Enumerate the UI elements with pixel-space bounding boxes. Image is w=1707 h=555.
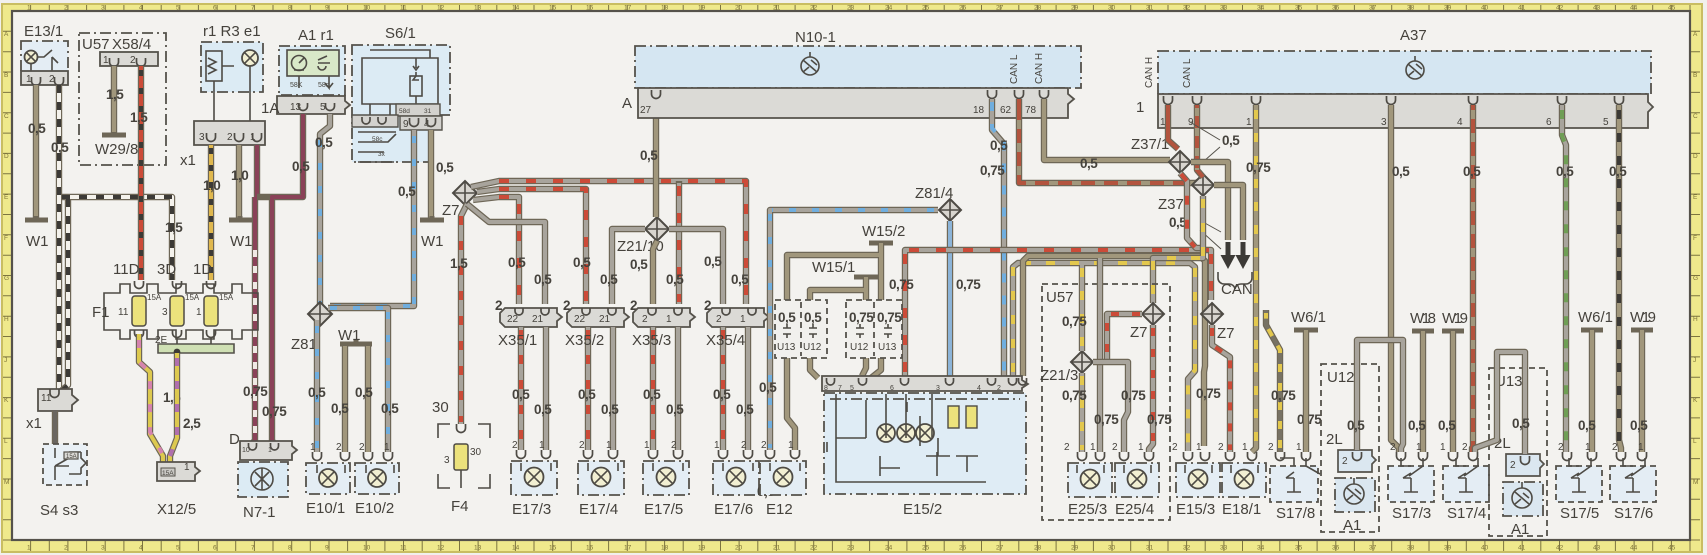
svg-text:36: 36 bbox=[1332, 5, 1340, 12]
svg-text:X35/3: X35/3 bbox=[632, 332, 671, 349]
control unit N7-1 bbox=[229, 431, 297, 521]
connector X35/4 bbox=[704, 298, 769, 327]
svg-text:13: 13 bbox=[474, 545, 482, 552]
wire to E12 pin1 brown from U-box bbox=[787, 360, 795, 450]
ground W6/1 (left) bbox=[1291, 309, 1326, 330]
wire X35/3 to E17/5 striped bbox=[650, 327, 656, 450]
svg-text:27: 27 bbox=[640, 105, 652, 116]
connector sleeve Z7 (right) bbox=[1201, 303, 1235, 342]
svg-text:2: 2 bbox=[761, 440, 767, 451]
svg-text:2: 2 bbox=[359, 442, 365, 453]
wire Z7-1 left arm to Z21/3 tee bbox=[1107, 314, 1142, 362]
wire A1r1 pin5 gray/blue 0,5 to Z81 bbox=[320, 114, 330, 314]
svg-text:A1: A1 bbox=[1511, 521, 1529, 538]
svg-text:39: 39 bbox=[1444, 5, 1452, 12]
svg-text:x1: x1 bbox=[180, 152, 196, 169]
wire A37 pin1 yellow/brown 0,75 to E18/1 pin1 bbox=[1252, 105, 1256, 452]
wire W19 to S17/4 pin1 bbox=[1450, 331, 1456, 452]
svg-text:2: 2 bbox=[1172, 442, 1178, 453]
svg-text:18: 18 bbox=[661, 5, 669, 12]
connector sleeve Z7 bbox=[442, 181, 477, 219]
svg-text:2: 2 bbox=[997, 385, 1001, 392]
wire x1 pin2 brown 1,0 to W1 bbox=[236, 145, 242, 218]
svg-text:Z21/3: Z21/3 bbox=[1040, 367, 1078, 384]
wire x1 pin1 maroon/white to N7-1 pin1 bbox=[252, 145, 257, 444]
svg-text:18: 18 bbox=[973, 105, 985, 116]
svg-text:E10/1: E10/1 bbox=[306, 500, 345, 517]
connector sleeve Z37/1 bbox=[1131, 136, 1191, 173]
svg-text:14: 14 bbox=[512, 545, 520, 552]
svg-text:Z37: Z37 bbox=[1158, 196, 1184, 213]
svg-text:19: 19 bbox=[698, 5, 706, 12]
svg-text:3: 3 bbox=[101, 5, 105, 12]
wire A1-U12 n-shape to S17/3 pin2 bbox=[1357, 340, 1403, 452]
svg-text:3: 3 bbox=[936, 385, 940, 392]
svg-text:29: 29 bbox=[1071, 5, 1079, 12]
ground W1 (E10 lamps) bbox=[340, 340, 372, 344]
wire Z21/3 right arm to E25/4 pin2 bbox=[1093, 362, 1128, 452]
ground W19 (left) bbox=[1442, 310, 1468, 331]
svg-text:27: 27 bbox=[996, 5, 1004, 12]
svg-text:W1: W1 bbox=[421, 233, 444, 250]
svg-text:13: 13 bbox=[474, 5, 482, 12]
svg-text:5: 5 bbox=[1603, 117, 1609, 128]
wire bundle H3 striped from Z7 to X35/1 bbox=[473, 197, 519, 304]
svg-text:U12: U12 bbox=[1327, 369, 1355, 386]
svg-text:0,5: 0,5 bbox=[573, 255, 591, 270]
svg-text:0,5: 0,5 bbox=[534, 402, 552, 417]
svg-text:2: 2 bbox=[336, 442, 342, 453]
svg-text:0,5: 0,5 bbox=[331, 401, 349, 416]
svg-text:30: 30 bbox=[1108, 5, 1116, 12]
svg-text:E: E bbox=[1693, 194, 1698, 201]
lamp E25/3 bbox=[1064, 442, 1112, 518]
switch-lamp unit E13/1 bbox=[21, 23, 68, 85]
svg-text:1: 1 bbox=[27, 545, 31, 552]
svg-text:0,5: 0,5 bbox=[601, 402, 619, 417]
svg-text:33: 33 bbox=[1220, 5, 1228, 12]
svg-text:42: 42 bbox=[1556, 545, 1564, 552]
svg-text:1: 1 bbox=[310, 442, 316, 453]
svg-text:21: 21 bbox=[532, 314, 544, 325]
lamp E17/5 bbox=[643, 440, 689, 518]
svg-text:D: D bbox=[1693, 153, 1698, 160]
svg-text:35: 35 bbox=[1295, 5, 1303, 12]
ground W19 (right) bbox=[1630, 309, 1656, 330]
svg-text:S17/4: S17/4 bbox=[1447, 505, 1486, 522]
svg-text:23: 23 bbox=[847, 5, 855, 12]
wire X58/4 pin1 brown 1,5 to W29/8 bbox=[111, 66, 117, 133]
svg-text:0,75: 0,75 bbox=[1246, 160, 1271, 175]
wire gray G3 from W2 to E25/3 pin1 bbox=[1097, 258, 1103, 452]
svg-text:X58/4: X58/4 bbox=[112, 36, 151, 53]
svg-text:F: F bbox=[4, 235, 8, 242]
svg-text:K: K bbox=[1693, 397, 1698, 404]
svg-text:E17/4: E17/4 bbox=[579, 501, 618, 518]
svg-text:CAN L: CAN L bbox=[1009, 54, 1020, 84]
svg-text:13: 13 bbox=[290, 102, 302, 113]
svg-text:2: 2 bbox=[1064, 442, 1070, 453]
svg-text:38: 38 bbox=[1407, 545, 1415, 552]
svg-text:W15/2: W15/2 bbox=[862, 223, 905, 240]
wire gray G1 from Z7 to X35/1 pin21 bbox=[467, 204, 545, 304]
svg-text:r1 R3 e1: r1 R3 e1 bbox=[203, 23, 261, 40]
svg-text:26: 26 bbox=[959, 5, 967, 12]
svg-text:0,5: 0,5 bbox=[1578, 418, 1596, 433]
connector strip N10-1 A bbox=[622, 53, 1074, 118]
svg-text:38: 38 bbox=[1407, 5, 1415, 12]
svg-text:2: 2 bbox=[1342, 456, 1348, 467]
svg-text:x1: x1 bbox=[26, 415, 42, 432]
svg-text:12: 12 bbox=[437, 545, 445, 552]
svg-text:E13/1: E13/1 bbox=[24, 23, 63, 40]
svg-text:36: 36 bbox=[1332, 545, 1340, 552]
wire bundle H2 striped from Z7 to X35/2 bbox=[477, 189, 586, 304]
svg-text:0,75: 0,75 bbox=[956, 277, 981, 292]
svg-text:44: 44 bbox=[1630, 545, 1638, 552]
svg-text:23: 23 bbox=[847, 545, 855, 552]
svg-text:1,0: 1,0 bbox=[231, 168, 248, 183]
ground W1 (x1 pin2) bbox=[229, 216, 252, 220]
svg-text:2: 2 bbox=[1462, 442, 1468, 453]
svg-text:W6/1: W6/1 bbox=[1578, 309, 1613, 326]
svg-text:CAN: CAN bbox=[1221, 281, 1253, 298]
lamp E12 bbox=[760, 440, 806, 518]
svg-text:6: 6 bbox=[213, 5, 217, 12]
svg-text:7: 7 bbox=[251, 5, 255, 12]
svg-text:31: 31 bbox=[424, 108, 432, 115]
svg-text:S17/8: S17/8 bbox=[1276, 505, 1315, 522]
svg-text:0,5: 0,5 bbox=[630, 257, 648, 272]
wire X58/4 pin2 red/black 1,5 down to F1 11D bbox=[138, 66, 144, 280]
svg-text:W19: W19 bbox=[1630, 309, 1656, 326]
svg-text:0,5: 0,5 bbox=[778, 310, 796, 325]
svg-text:1: 1 bbox=[539, 440, 545, 451]
svg-text:S17/6: S17/6 bbox=[1614, 505, 1653, 522]
svg-text:W1: W1 bbox=[26, 233, 49, 250]
svg-text:37: 37 bbox=[1369, 5, 1377, 12]
svg-text:0,75: 0,75 bbox=[980, 163, 1005, 178]
svg-text:A37: A37 bbox=[1400, 27, 1427, 44]
lamp E10/1 bbox=[306, 442, 350, 517]
svg-text:0,75: 0,75 bbox=[849, 310, 874, 325]
svg-text:21: 21 bbox=[773, 5, 781, 12]
control unit N10-1 block bbox=[635, 29, 1081, 88]
wire bundle H1 striped from Z7 to X35/4 bbox=[471, 181, 746, 304]
svg-text:25: 25 bbox=[922, 5, 930, 12]
svg-text:0,75: 0,75 bbox=[1271, 388, 1296, 403]
wire Z37 striped yellow branch to Z7-1 bbox=[1153, 196, 1203, 303]
svg-text:G: G bbox=[1693, 275, 1698, 282]
svg-text:U12: U12 bbox=[850, 342, 869, 353]
svg-text:U57: U57 bbox=[1046, 289, 1074, 306]
svg-text:15A: 15A bbox=[219, 293, 234, 302]
connector X35/2 bbox=[563, 298, 629, 327]
svg-text:41: 41 bbox=[1518, 545, 1526, 552]
svg-text:E15/2: E15/2 bbox=[903, 501, 942, 518]
svg-text:0,5: 0,5 bbox=[1408, 418, 1426, 433]
svg-text:J: J bbox=[1693, 357, 1696, 364]
svg-text:17: 17 bbox=[624, 5, 632, 12]
wire to E12 pin2 blue/gray from Z81/4 horizontal bbox=[770, 210, 938, 450]
svg-text:16: 16 bbox=[586, 545, 594, 552]
resistor-lamp unit r1 R3 e1 bbox=[201, 23, 263, 121]
svg-text:Z37/1: Z37/1 bbox=[1131, 136, 1169, 153]
wire Z81/4 down blue 0,75 to E15/2 pin3 bbox=[947, 221, 953, 376]
svg-text:4: 4 bbox=[139, 5, 143, 12]
svg-text:F: F bbox=[1693, 235, 1697, 242]
svg-text:0,5: 0,5 bbox=[1347, 418, 1365, 433]
svg-text:1: 1 bbox=[1196, 442, 1202, 453]
svg-text:2: 2 bbox=[671, 440, 677, 451]
svg-text:30: 30 bbox=[470, 447, 482, 458]
svg-text:40: 40 bbox=[1481, 5, 1489, 12]
svg-text:E17/6: E17/6 bbox=[714, 501, 753, 518]
svg-text:8: 8 bbox=[288, 5, 292, 12]
wire S6/1 brown 0,5 to W1 bbox=[428, 130, 434, 218]
connector x1 pin 11 bbox=[26, 389, 78, 432]
svg-text:9: 9 bbox=[325, 545, 329, 552]
svg-text:5: 5 bbox=[176, 5, 180, 12]
wire x1 pin3 yellow/black 1,0 to F1 1D bbox=[208, 145, 214, 280]
connector X35/3 bbox=[630, 298, 695, 327]
svg-text:1: 1 bbox=[666, 314, 672, 325]
svg-text:0,5: 0,5 bbox=[1438, 418, 1456, 433]
svg-text:L: L bbox=[1693, 438, 1697, 445]
svg-text:2: 2 bbox=[579, 440, 585, 451]
svg-text:0,5: 0,5 bbox=[1222, 133, 1240, 148]
wire E13/1 pin1 to ground W1 (brown 0,5) bbox=[33, 85, 39, 218]
svg-text:0,5: 0,5 bbox=[315, 135, 333, 150]
wire W15/2 brown to E15/2 and U-box branch bbox=[787, 243, 881, 378]
svg-text:D: D bbox=[229, 431, 240, 448]
svg-text:10: 10 bbox=[363, 5, 371, 12]
svg-text:24: 24 bbox=[885, 5, 893, 12]
svg-text:L: L bbox=[4, 438, 8, 445]
svg-text:1A: 1A bbox=[261, 100, 279, 117]
wire Z7 down 1,5 red/gray to F4 bbox=[461, 204, 467, 424]
svg-text:62: 62 bbox=[1000, 105, 1012, 116]
svg-text:0,75: 0,75 bbox=[1147, 412, 1172, 427]
svg-text:39: 39 bbox=[1444, 545, 1452, 552]
svg-text:A1: A1 bbox=[1343, 517, 1361, 534]
svg-text:E17/5: E17/5 bbox=[644, 501, 683, 518]
svg-text:3: 3 bbox=[101, 545, 105, 552]
svg-text:0,5: 0,5 bbox=[600, 272, 618, 287]
control unit A1 (U13) bbox=[1489, 368, 1547, 538]
ground W15/1 bbox=[812, 259, 878, 277]
relay box U57 bbox=[1042, 284, 1170, 520]
svg-text:25: 25 bbox=[922, 545, 930, 552]
svg-text:H: H bbox=[1693, 316, 1698, 323]
svg-text:E12: E12 bbox=[766, 501, 793, 518]
svg-text:F1: F1 bbox=[92, 304, 110, 321]
svg-text:S17/3: S17/3 bbox=[1392, 505, 1431, 522]
connector strip 1A bbox=[261, 96, 350, 117]
svg-text:1: 1 bbox=[1136, 99, 1144, 116]
lamp E17/4 bbox=[578, 440, 624, 518]
control unit A1 (U12) bbox=[1321, 364, 1379, 534]
svg-text:0,5: 0,5 bbox=[640, 148, 658, 163]
svg-text:2: 2 bbox=[64, 545, 68, 552]
switch S17/3 bbox=[1388, 442, 1434, 522]
svg-text:24: 24 bbox=[885, 545, 893, 552]
svg-text:0,5: 0,5 bbox=[1463, 164, 1481, 179]
svg-text:6: 6 bbox=[1546, 117, 1552, 128]
wire A37 pin4 red/brown 0,5 to S17/4 pin2 bbox=[1472, 105, 1473, 452]
svg-text:3D: 3D bbox=[157, 261, 176, 278]
svg-text:D: D bbox=[4, 153, 9, 160]
svg-text:32: 32 bbox=[1183, 545, 1191, 552]
wire N10-1 pin27 brown through Z21/10 to X35/3 bbox=[653, 118, 657, 304]
svg-text:W6/1: W6/1 bbox=[1291, 309, 1326, 326]
wire A1-U13 n-shape to S17/4 pin2 bbox=[1475, 352, 1525, 454]
svg-text:17: 17 bbox=[624, 545, 632, 552]
svg-text:0,5: 0,5 bbox=[731, 272, 749, 287]
wire Z21/10 right arm to X35/4 pin1 bbox=[669, 229, 723, 304]
svg-text:0,5: 0,5 bbox=[666, 272, 684, 287]
svg-text:1: 1 bbox=[1246, 117, 1252, 128]
wire A37 pin6 green/gray 0,5 to S17/5 pin2 bbox=[1562, 105, 1566, 452]
lamp E25/4 bbox=[1112, 442, 1159, 518]
svg-text:7: 7 bbox=[838, 385, 842, 392]
wire A1r1 pin13 maroon 0,5 to N7-1 pin2 bbox=[257, 114, 303, 444]
svg-text:45: 45 bbox=[1668, 5, 1676, 12]
svg-text:2: 2 bbox=[642, 314, 648, 325]
svg-text:0,75: 0,75 bbox=[1196, 386, 1221, 401]
connector sleeve Z21/3 bbox=[1040, 351, 1093, 384]
wire Z81 down blue/gray to E10/1 pin1 bbox=[314, 320, 320, 452]
svg-text:21: 21 bbox=[773, 545, 781, 552]
wire Z37/1 right to CAN arrow left bbox=[1191, 162, 1228, 240]
pin U X58/4-2 bbox=[137, 58, 146, 66]
switch S17/5 bbox=[1556, 442, 1602, 522]
svg-text:15: 15 bbox=[549, 545, 557, 552]
svg-text:X35/1: X35/1 bbox=[498, 332, 537, 349]
control unit E15/2 box bbox=[824, 393, 1026, 518]
wire A37 pin9 to Z37 bbox=[1197, 105, 1203, 177]
svg-text:1: 1 bbox=[196, 307, 202, 318]
svg-text:B: B bbox=[4, 72, 8, 79]
wire A37 pin10 to Z37/1 bbox=[1168, 105, 1178, 149]
instrument unit A1 r1 bbox=[279, 27, 345, 95]
ground W6/1 (right) bbox=[1578, 309, 1613, 330]
svg-text:0,5: 0,5 bbox=[308, 385, 326, 400]
svg-text:0,5: 0,5 bbox=[804, 310, 822, 325]
svg-text:0,5: 0,5 bbox=[713, 387, 731, 402]
svg-text:4: 4 bbox=[139, 545, 143, 552]
svg-text:58d: 58d bbox=[399, 108, 410, 115]
svg-text:1: 1 bbox=[714, 440, 720, 451]
svg-text:9: 9 bbox=[403, 119, 409, 130]
svg-text:16: 16 bbox=[586, 5, 594, 12]
svg-text:0,5: 0,5 bbox=[534, 272, 552, 287]
connector sleeve Z37 bbox=[1158, 174, 1214, 213]
svg-text:1,5: 1,5 bbox=[106, 87, 124, 102]
svg-text:1: 1 bbox=[1296, 442, 1302, 453]
svg-text:1: 1 bbox=[606, 440, 612, 451]
svg-text:2: 2 bbox=[227, 132, 233, 143]
svg-text:0,5: 0,5 bbox=[512, 387, 530, 402]
wire x1 to S4 bbox=[52, 411, 58, 448]
lamp unit U57 X58/4 bbox=[79, 33, 166, 165]
pin U E13/1-1 bbox=[32, 77, 41, 86]
wire red/gray bus W15 to Z7-2: E15/2 pin6 up and right bbox=[905, 250, 1211, 376]
wire X35/2 to E17/4 striped bbox=[585, 327, 591, 450]
svg-text:2: 2 bbox=[495, 298, 502, 313]
svg-text:1: 1 bbox=[1416, 442, 1422, 453]
wire Z21/10 left arm to X35/2 pin1 bbox=[612, 229, 645, 304]
wire W1 to E10/2 pin2 brown bbox=[365, 346, 371, 452]
svg-text:J: J bbox=[4, 357, 7, 364]
svg-text:2: 2 bbox=[512, 440, 518, 451]
svg-text:11: 11 bbox=[400, 5, 407, 12]
svg-text:31: 31 bbox=[1146, 545, 1154, 552]
svg-text:1: 1 bbox=[103, 55, 109, 66]
svg-text:1: 1 bbox=[384, 442, 390, 453]
wire F1 fuse11 yellow/pink 1,5 to X12/5 bbox=[139, 334, 163, 462]
svg-text:0,75: 0,75 bbox=[889, 277, 914, 292]
svg-text:CAN H: CAN H bbox=[1144, 57, 1155, 88]
svg-text:27: 27 bbox=[996, 545, 1004, 552]
svg-text:U57: U57 bbox=[82, 36, 110, 53]
wire Z37 right to CAN arrow right bbox=[1214, 185, 1243, 240]
label 0,5 callout striped wires bbox=[1169, 215, 1221, 249]
svg-text:K: K bbox=[4, 397, 9, 404]
svg-text:1: 1 bbox=[1090, 442, 1096, 453]
svg-text:5: 5 bbox=[850, 385, 854, 392]
svg-text:0,5: 0,5 bbox=[292, 159, 310, 174]
wire W6/1 to S17/5 pin1 bbox=[1589, 330, 1595, 452]
svg-text:Z7: Z7 bbox=[1130, 324, 1148, 341]
connector pair U13-U12 (0,5) bbox=[775, 300, 827, 358]
svg-text:10: 10 bbox=[363, 545, 371, 552]
svg-text:3: 3 bbox=[1381, 117, 1387, 128]
svg-text:15A: 15A bbox=[66, 454, 77, 460]
wire Z7-2 down to E18/1 pin2 bbox=[1212, 325, 1230, 452]
connector sleeve Z21/10 bbox=[617, 217, 669, 255]
ground W18 bbox=[1410, 310, 1436, 331]
switch S17/8 bbox=[1268, 442, 1320, 522]
svg-text:0,5: 0,5 bbox=[355, 385, 373, 400]
wire N10-1 pin62 red CAN-L to Z37 bbox=[1019, 99, 1203, 183]
svg-text:0,5: 0,5 bbox=[1630, 418, 1648, 433]
svg-text:W15/1: W15/1 bbox=[812, 259, 855, 276]
svg-text:1: 1 bbox=[644, 440, 650, 451]
svg-text:X35/2: X35/2 bbox=[565, 332, 604, 349]
svg-text:3: 3 bbox=[444, 455, 450, 466]
svg-text:U13: U13 bbox=[878, 342, 897, 353]
svg-text:2,5: 2,5 bbox=[183, 416, 201, 431]
fuse box F1 bbox=[92, 261, 258, 339]
svg-text:W19: W19 bbox=[1442, 310, 1468, 327]
wire X35/2 to E17/4 gray bbox=[610, 327, 616, 450]
wire W15/1 brown to E15/2 pin8 and U-box bbox=[810, 277, 866, 378]
svg-text:1: 1 bbox=[1440, 442, 1446, 453]
svg-text:2: 2 bbox=[1218, 442, 1224, 453]
svg-text:12: 12 bbox=[437, 5, 445, 12]
svg-text:S17/5: S17/5 bbox=[1560, 505, 1599, 522]
svg-text:N7-1: N7-1 bbox=[243, 504, 276, 521]
svg-text:W18: W18 bbox=[1410, 310, 1436, 327]
svg-text:0,5: 0,5 bbox=[381, 401, 399, 416]
svg-text:0,5: 0,5 bbox=[704, 254, 722, 269]
wire X35/1 to E17/3 gray bbox=[543, 327, 549, 450]
wire E13/1 pin2 black/white striped down to x1 bbox=[56, 85, 62, 390]
switch unit S6/1 bbox=[352, 25, 450, 162]
svg-text:F4: F4 bbox=[451, 498, 469, 515]
svg-text:0,75: 0,75 bbox=[262, 404, 287, 419]
